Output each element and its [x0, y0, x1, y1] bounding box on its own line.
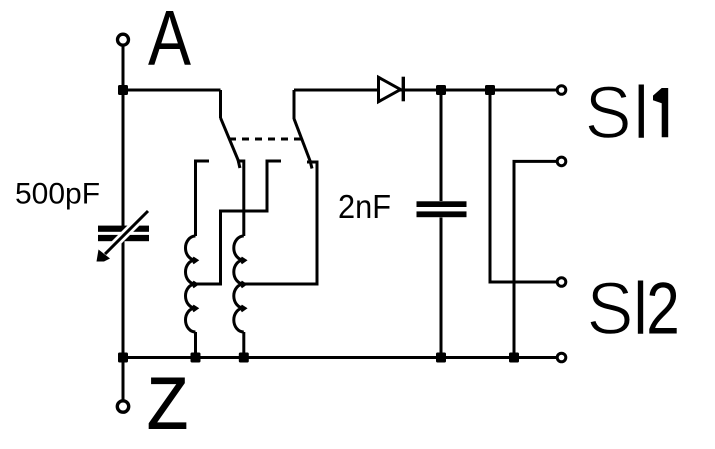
svg-text:l: l	[634, 269, 648, 350]
svg-text:A: A	[148, 0, 191, 82]
svg-text:500pF: 500pF	[15, 178, 100, 211]
svg-text:2nF: 2nF	[338, 188, 391, 225]
svg-text:S: S	[585, 71, 632, 154]
svg-text:Z: Z	[147, 362, 188, 445]
svg-text:S: S	[587, 267, 634, 350]
svg-text:2: 2	[646, 269, 680, 350]
svg-text:l: l	[635, 73, 649, 154]
